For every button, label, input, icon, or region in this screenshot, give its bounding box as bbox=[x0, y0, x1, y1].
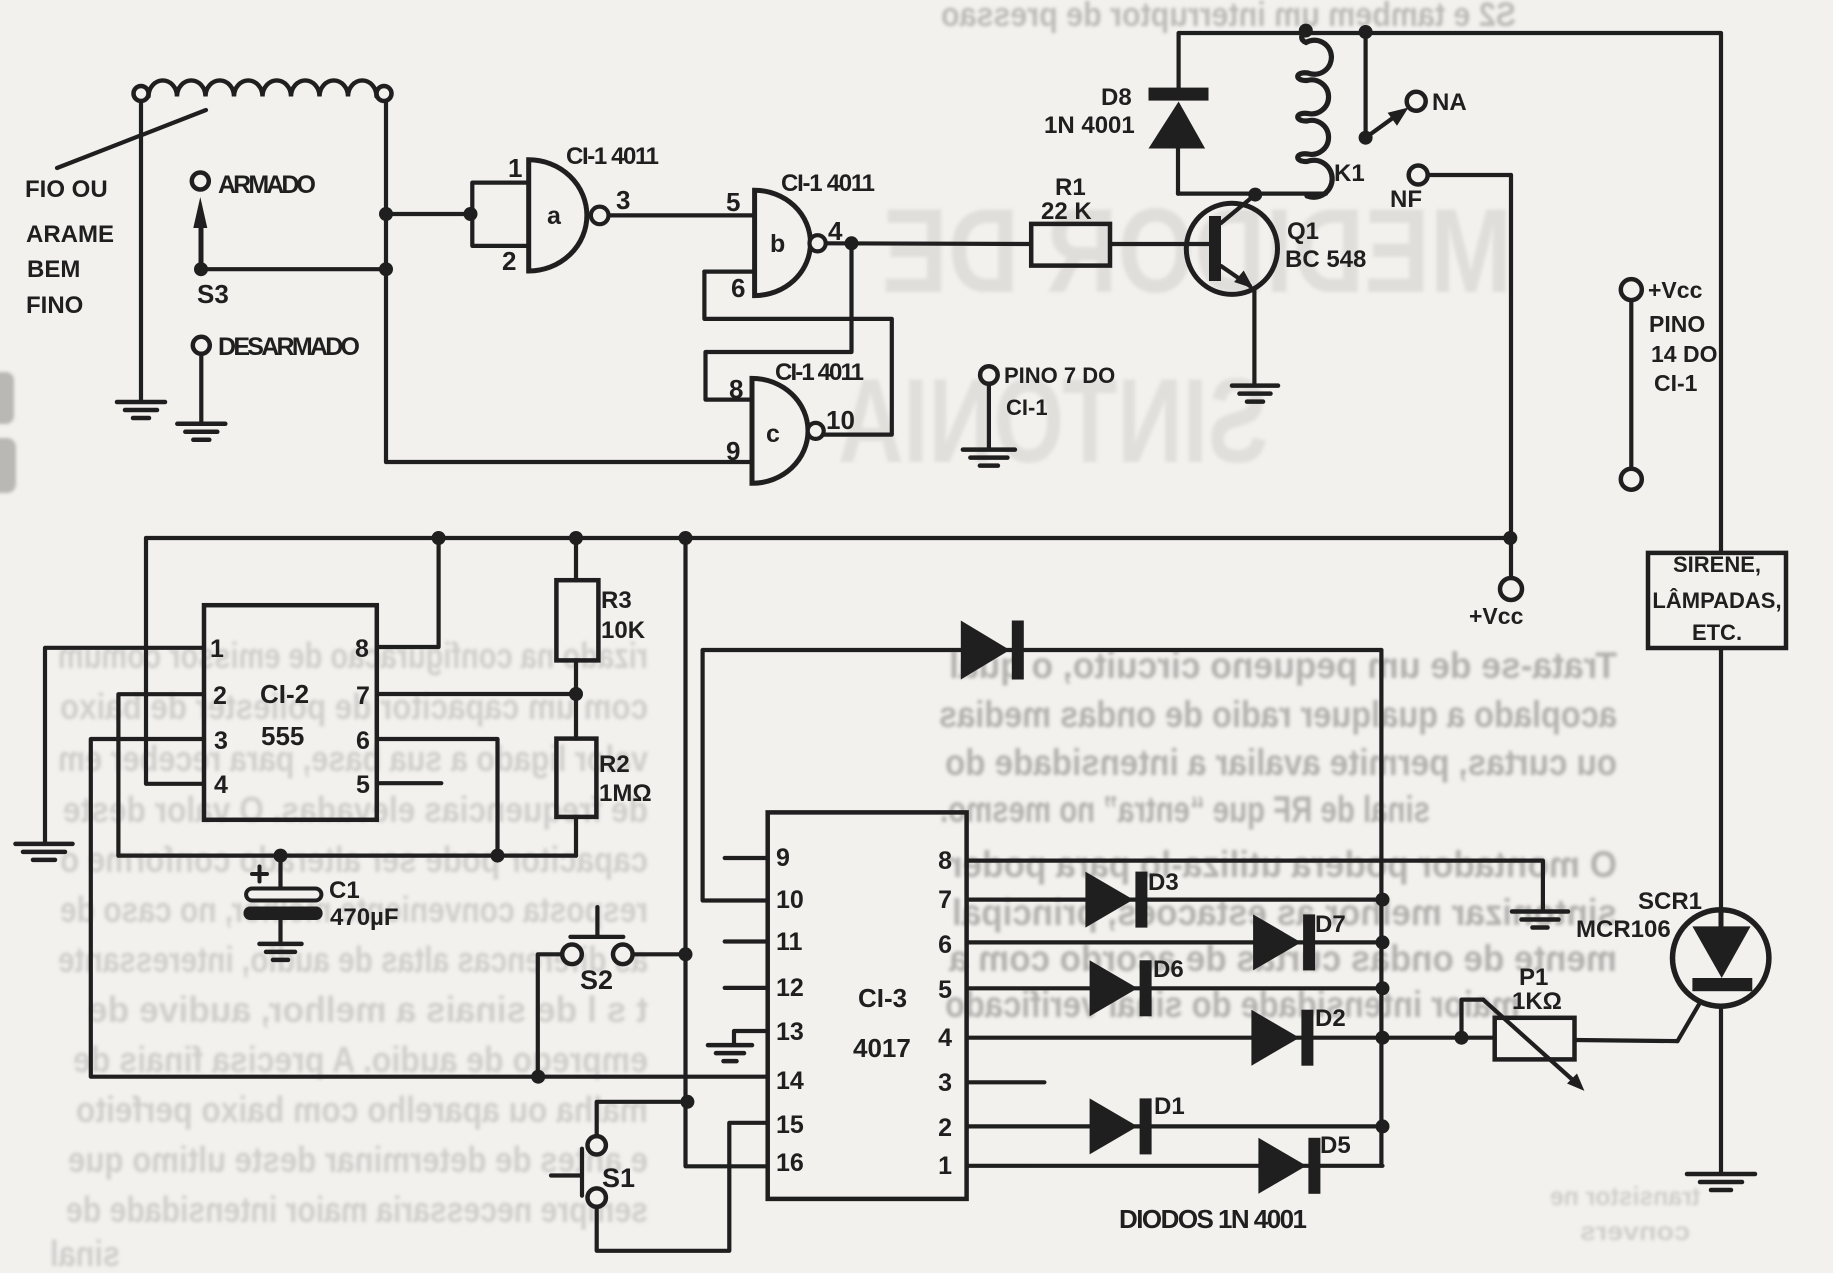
svg-text:11: 11 bbox=[776, 928, 803, 956]
svg-text:D6: D6 bbox=[1153, 956, 1184, 983]
svg-text:5: 5 bbox=[938, 976, 952, 1004]
svg-text:CI-1: CI-1 bbox=[1654, 370, 1698, 396]
svg-text:PINO: PINO bbox=[1649, 311, 1705, 337]
svg-text:S2 e tambem um interruptor de: S2 e tambem um interruptor de pressao bbox=[941, 0, 1516, 34]
svg-text:SIRENE,: SIRENE, bbox=[1673, 552, 1761, 577]
svg-text:D2: D2 bbox=[1315, 1005, 1346, 1032]
svg-text:1: 1 bbox=[508, 153, 522, 183]
svg-text:3: 3 bbox=[214, 727, 228, 755]
svg-text:13: 13 bbox=[776, 1018, 804, 1046]
svg-text:4: 4 bbox=[828, 216, 843, 246]
svg-text:9: 9 bbox=[776, 844, 790, 872]
svg-text:S1: S1 bbox=[602, 1163, 635, 1193]
svg-text:14: 14 bbox=[776, 1067, 804, 1095]
svg-text:PINO 7 DO: PINO 7 DO bbox=[1004, 363, 1115, 388]
svg-text:7: 7 bbox=[938, 886, 952, 914]
svg-text:t s l de sinais a melhor, audi: t s l de sinais a melhor, audive de bbox=[88, 989, 648, 1030]
svg-text:CI-3: CI-3 bbox=[858, 983, 907, 1013]
svg-text:S3: S3 bbox=[197, 279, 229, 309]
svg-text:10: 10 bbox=[826, 405, 855, 435]
svg-text:D1: D1 bbox=[1154, 1093, 1185, 1120]
svg-text:DIODOS 1N 4001: DIODOS 1N 4001 bbox=[1119, 1204, 1307, 1234]
svg-text:8: 8 bbox=[355, 635, 369, 663]
svg-text:D5: D5 bbox=[1320, 1132, 1351, 1159]
svg-text:CI-1 4011: CI-1 4011 bbox=[566, 143, 659, 170]
svg-text:R1: R1 bbox=[1055, 174, 1086, 201]
svg-text:sempre necessaria maior intens: sempre necessaria maior intensidade de bbox=[66, 1189, 648, 1230]
svg-text:15: 15 bbox=[776, 1111, 804, 1139]
svg-text:12: 12 bbox=[776, 974, 804, 1002]
svg-text:1: 1 bbox=[938, 1152, 952, 1180]
svg-text:convers: convers bbox=[1580, 1216, 1690, 1246]
svg-text:b: b bbox=[770, 230, 785, 258]
svg-text:ETC.: ETC. bbox=[1692, 620, 1742, 645]
svg-text:14 DO: 14 DO bbox=[1651, 341, 1717, 367]
svg-text:4: 4 bbox=[938, 1024, 952, 1052]
svg-text:555: 555 bbox=[261, 721, 304, 751]
svg-text:8: 8 bbox=[938, 847, 952, 875]
svg-text:capacitor pode ser alterado co: capacitor pode ser alterado conforme o bbox=[60, 839, 648, 880]
svg-text:2: 2 bbox=[213, 682, 227, 710]
svg-text:ARMADO: ARMADO bbox=[218, 171, 316, 199]
svg-text:SCR1: SCR1 bbox=[1638, 888, 1702, 915]
svg-text:S2: S2 bbox=[580, 965, 613, 995]
svg-text:1MΩ: 1MΩ bbox=[599, 780, 652, 807]
svg-text:P1: P1 bbox=[1519, 964, 1548, 991]
svg-text:4: 4 bbox=[214, 771, 228, 799]
svg-text:D7: D7 bbox=[1315, 911, 1346, 938]
svg-text:6: 6 bbox=[356, 727, 370, 755]
svg-text:1: 1 bbox=[210, 635, 224, 663]
svg-text:NF: NF bbox=[1390, 186, 1422, 213]
svg-text:BEM: BEM bbox=[27, 256, 80, 283]
svg-text:ARAME: ARAME bbox=[26, 221, 114, 248]
svg-text:sinal: sinal bbox=[50, 1233, 120, 1273]
svg-text:9: 9 bbox=[726, 436, 740, 466]
svg-text:CI-2: CI-2 bbox=[260, 679, 309, 709]
svg-text:MCR106: MCR106 bbox=[1576, 916, 1671, 943]
svg-text:sinal de RF que “entra” no mes: sinal de RF que “entra” no mesmo. bbox=[940, 789, 1430, 830]
svg-text:LÂMPADAS,: LÂMPADAS, bbox=[1652, 588, 1781, 613]
svg-text:malha ou aparelho com baixo pe: malha ou aparelho com baixo perfeito bbox=[76, 1089, 648, 1130]
svg-text:CI-1 4011: CI-1 4011 bbox=[781, 170, 875, 197]
svg-text:FINO: FINO bbox=[26, 292, 83, 319]
svg-text:D3: D3 bbox=[1148, 869, 1179, 896]
svg-text:6: 6 bbox=[731, 273, 745, 303]
svg-text:1N 4001: 1N 4001 bbox=[1044, 112, 1135, 139]
svg-text:470µF: 470µF bbox=[330, 904, 399, 931]
svg-text:3: 3 bbox=[616, 185, 630, 215]
svg-text:K1: K1 bbox=[1334, 160, 1365, 187]
svg-text:+Vcc: +Vcc bbox=[1648, 277, 1703, 303]
svg-text:O montador podera utiliza-lo p: O montador podera utiliza-lo para poder bbox=[949, 844, 1617, 885]
svg-text:transistor ne: transistor ne bbox=[1550, 1181, 1700, 1211]
svg-text:2: 2 bbox=[502, 246, 516, 276]
svg-text:emprego de audio. A precisa fi: emprego de audio. A precisa finais de bbox=[73, 1039, 648, 1080]
svg-text:3: 3 bbox=[938, 1069, 952, 1097]
svg-text:+Vcc: +Vcc bbox=[1469, 603, 1524, 629]
svg-text:R3: R3 bbox=[601, 587, 632, 614]
svg-text:R2: R2 bbox=[599, 751, 630, 778]
svg-text:10K: 10K bbox=[601, 617, 646, 644]
svg-text:ou curtas, permite avaliar a i: ou curtas, permite avaliar a intensidade… bbox=[945, 742, 1617, 783]
svg-text:4017: 4017 bbox=[853, 1033, 911, 1063]
svg-text:c: c bbox=[766, 420, 780, 448]
svg-text:5: 5 bbox=[726, 187, 740, 217]
svg-text:Q1: Q1 bbox=[1287, 218, 1319, 245]
svg-text:CI-1 4011: CI-1 4011 bbox=[775, 359, 864, 386]
svg-text:DESARMADO: DESARMADO bbox=[218, 333, 360, 361]
svg-text:D8: D8 bbox=[1101, 84, 1132, 111]
svg-text:CI-1: CI-1 bbox=[1006, 395, 1048, 420]
svg-text:1KΩ: 1KΩ bbox=[1512, 988, 1562, 1015]
svg-text:BC 548: BC 548 bbox=[1285, 246, 1366, 273]
svg-text:C1: C1 bbox=[329, 877, 360, 904]
svg-text:7: 7 bbox=[356, 682, 370, 710]
svg-text:as diferencas altas de audio,: as diferencas altas de audio, interessan… bbox=[58, 939, 648, 980]
svg-text:16: 16 bbox=[776, 1149, 804, 1177]
svg-text:NA: NA bbox=[1432, 89, 1467, 116]
svg-text:FIO OU: FIO OU bbox=[25, 176, 108, 203]
svg-text:5: 5 bbox=[356, 771, 370, 799]
svg-text:2: 2 bbox=[938, 1114, 952, 1142]
svg-text:6: 6 bbox=[938, 931, 952, 959]
svg-text:a: a bbox=[547, 202, 562, 230]
svg-text:acoplado a qualquer radio de o: acoplado a qualquer radio de ondas media… bbox=[939, 694, 1617, 735]
svg-text:22 K: 22 K bbox=[1041, 198, 1092, 225]
svg-text:10: 10 bbox=[776, 886, 804, 914]
svg-text:8: 8 bbox=[729, 374, 743, 404]
